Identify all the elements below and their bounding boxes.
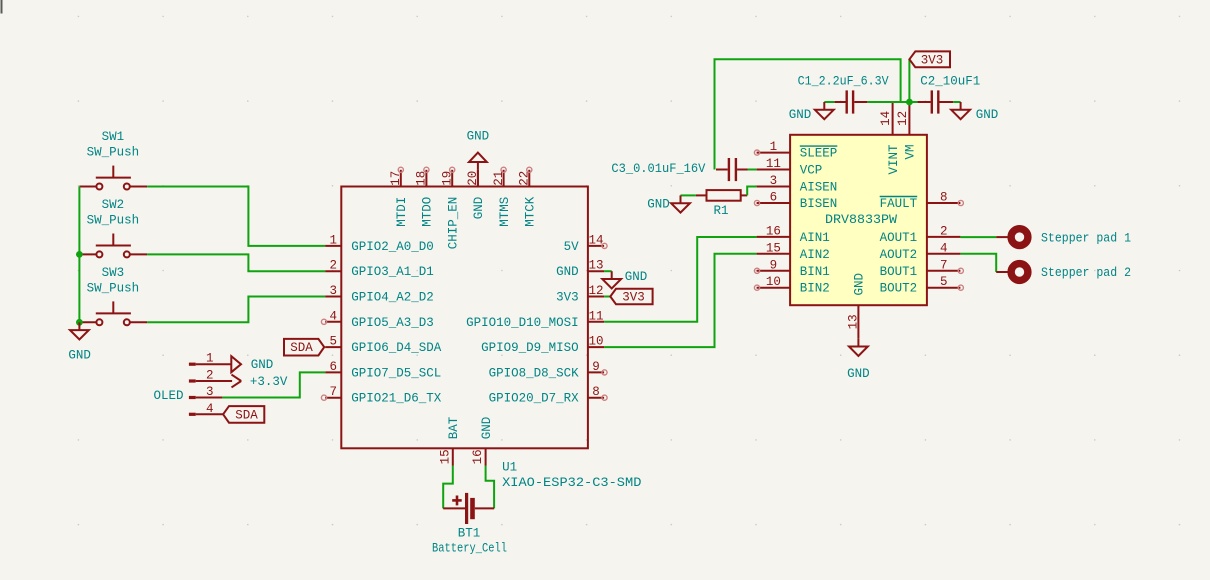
svg-text:7: 7 [940,258,948,272]
wire U1 pin 12 to 3V3 label [604,296,610,298]
U1 pin 5 GPIO6_D4_SDA [325,335,442,356]
DRV pin 12 VM [896,102,918,160]
svg-text:11: 11 [588,309,603,323]
svg-text:3: 3 [206,385,214,399]
U1 pin 2 GPIO3_A1_D1 [325,259,434,280]
DRV pin 8 FAULT [880,191,964,212]
svg-text:GND: GND [480,417,494,440]
DRV pin 5 BOUT2 [880,275,964,296]
DRV pin 3 AISEN [757,174,838,195]
svg-text:Stepper pad 1: Stepper pad 1 [1041,231,1131,245]
U1 pin 3 GPIO4_A2_D2 [325,284,434,305]
capacitor C2 [917,90,953,113]
svg-text:MTMS: MTMS [498,197,512,227]
svg-text:C3_0.01uF_16V: C3_0.01uF_16V [611,162,705,176]
svg-text:SW_Push: SW_Push [87,213,140,227]
svg-text:14: 14 [879,111,893,126]
power label 3V3 at U1 pin 12 [610,289,652,305]
wire 3V3 node [867,101,909,103]
svg-text:DRV8833PW: DRV8833PW [825,213,898,227]
U1 pin 21 MTMS [492,167,512,227]
junction 3V3 node [907,99,913,105]
svg-text:GPIO8_D8_SCK: GPIO8_D8_SCK [489,366,580,380]
svg-text:XIAO-ESP32-C3-SMD: XIAO-ESP32-C3-SMD [502,476,641,490]
capacitor C3 [716,158,748,181]
DRV pin 2 AOUT1 [880,224,961,245]
svg-text:Battery_Cell: Battery_Cell [432,541,507,555]
ground below SW3 [68,322,91,362]
svg-text:MTCK: MTCK [524,196,538,227]
wire 3V3 label stub [908,59,910,102]
svg-text:MTDO: MTDO [421,197,435,227]
wire U1 BAT to battery plus [443,466,453,509]
svg-text:GND: GND [847,367,870,381]
svg-text:12: 12 [588,284,603,298]
svg-text:7: 7 [330,385,338,399]
svg-text:15: 15 [766,241,781,255]
svg-text:12: 12 [896,111,910,126]
ground at U1 pin 13 [602,270,647,288]
svg-text:GPIO9_D9_MISO: GPIO9_D9_MISO [481,341,579,355]
svg-text:AISEN: AISEN [800,181,838,195]
svg-text:SW_Push: SW_Push [87,281,140,295]
svg-text:GND: GND [853,273,867,296]
svg-text:15: 15 [438,449,452,464]
svg-text:3: 3 [770,174,778,188]
svg-text:GPIO21_D6_TX: GPIO21_D6_TX [351,392,442,406]
U1 pin 10 GPIO9_D9_MISO [481,335,604,356]
svg-text:5V: 5V [564,240,580,254]
svg-text:SDA: SDA [235,408,258,422]
IC U1 XIAO-ESP32-C3-SMD body [341,187,588,449]
U1 pin 7 GPIO21_D6_TX [321,385,441,406]
svg-text:BOUT1: BOUT1 [880,265,918,279]
svg-text:GPIO6_D4_SDA: GPIO6_D4_SDA [351,341,442,355]
svg-text:R1: R1 [713,204,728,218]
U1 pin 14 5V [564,233,608,254]
DRV pin 1 SLEEP [754,140,837,161]
svg-text:AIN2: AIN2 [800,248,830,262]
svg-text:13: 13 [588,259,603,273]
svg-text:SW2: SW2 [102,198,125,212]
svg-text:9: 9 [770,258,778,272]
U1 pin 4 GPIO5_A3_D3 [321,309,433,330]
U1 pin 12 3V3 [556,284,604,305]
svg-text:GND: GND [472,197,486,220]
U1 pin 20 GND [466,170,486,219]
svg-text:GPIO7_D5_SCL: GPIO7_D5_SCL [351,366,441,380]
wire SW2 to U1 pin 2 [147,254,325,271]
svg-text:AOUT1: AOUT1 [880,231,918,245]
wire C3 to DRV VCP [748,169,757,171]
svg-text:GPIO3_A1_D1: GPIO3_A1_D1 [351,265,434,279]
IC U2 DRV8833PW body [790,135,927,305]
svg-text:GND: GND [68,349,91,363]
svg-text:BIN1: BIN1 [800,265,830,279]
U1 pin 8 GPIO20_D7_RX [489,385,608,406]
svg-text:GPIO20_D7_RX: GPIO20_D7_RX [489,392,580,406]
svg-text:C1_2.2uF_6.3V: C1_2.2uF_6.3V [798,75,889,89]
svg-text:4: 4 [206,402,214,416]
svg-text:9: 9 [592,360,600,374]
svg-text:10: 10 [766,275,781,289]
DRV pin 14 VINT [879,102,901,175]
svg-text:3: 3 [330,284,338,298]
pad 1 lead [996,236,1008,238]
svg-text:GND: GND [789,108,812,122]
svg-text:BISEN: BISEN [800,197,838,211]
stepper pad 1 [1008,226,1131,249]
DRV pin 10 BIN2 [754,275,829,296]
U1 pin 16 GND [471,417,494,466]
capacitor C1 [834,90,867,113]
svg-text:2: 2 [206,369,214,383]
power label 3V3 top [909,51,950,67]
U1 pin 1 GPIO2_A0_D0 [325,233,434,254]
svg-text:SDA: SDA [290,341,313,355]
svg-text:BOUT2: BOUT2 [880,282,918,296]
wire SW1 to U1 pin 1 [147,187,325,246]
wire DRV AOUT2 to pad 2 [960,254,996,272]
wire U1 pin 10 to DRV AIN2 [604,254,757,347]
DRV pin 7 BOUT1 [880,258,964,279]
U1 pin 19 CHIP_EN [440,167,460,249]
U1 pin 6 GPIO7_D5_SCL [325,360,441,381]
OLED pin 2 [189,369,232,383]
svg-text:C2_10uF1: C2_10uF1 [920,75,980,89]
svg-text:GPIO4_A2_D2: GPIO4_A2_D2 [351,291,434,305]
DRV pin 4 AOUT2 [880,241,961,261]
global label SDA at OLED pin 4 [223,406,264,423]
wire R1 to DRV AISEN [747,187,756,196]
svg-text:SW1: SW1 [102,130,125,144]
svg-text:GPIO5_A3_D3: GPIO5_A3_D3 [351,316,434,330]
svg-text:3V3: 3V3 [556,291,579,305]
svg-text:+3.3V: +3.3V [250,375,288,389]
svg-text:1: 1 [770,140,778,154]
ground at C2 [951,102,998,122]
U1 pin 22 MTCK [518,167,538,227]
svg-text:8: 8 [940,191,948,205]
ground at OLED pin 1 [231,356,273,372]
svg-text:BIN2: BIN2 [800,282,830,296]
wire U1 pin 11 to DRV AIN1 [604,237,757,322]
DRV pin 13 GND [846,273,866,339]
svg-text:MTDI: MTDI [395,197,409,227]
svg-text:6: 6 [330,360,338,374]
wire switch common bus [78,187,80,323]
svg-text:GPIO2_A0_D0: GPIO2_A0_D0 [351,240,434,254]
wire DRV AOUT1 to pad 1 [960,236,996,238]
svg-text:AOUT2: AOUT2 [880,248,918,262]
svg-text:5: 5 [940,275,948,289]
wire C2 to ground [953,101,960,103]
DRV pin 11 VCP [757,157,823,178]
junction SW2 left [77,252,83,258]
svg-text:1: 1 [330,233,338,247]
svg-text:1: 1 [206,352,214,366]
switch SW2 SW_Push [79,198,147,258]
DRV pin 6 BISEN [754,191,837,212]
svg-text:GND: GND [251,358,274,372]
ground below DRV pin 13 [847,339,870,381]
svg-text:4: 4 [330,309,338,323]
svg-text:11: 11 [766,157,781,171]
svg-text:8: 8 [592,385,600,399]
svg-text:6: 6 [770,191,778,205]
svg-text:5: 5 [330,335,338,349]
power +3.3V at OLED pin 2 [232,375,288,389]
ground at R1 [647,195,690,212]
svg-text:2: 2 [330,259,338,273]
ground at C1 [789,102,834,122]
svg-text:SLEEP: SLEEP [800,147,838,161]
OLED pin 4 [189,402,223,416]
DRV pin 16 AIN1 [757,224,830,245]
battery BT1 [432,493,507,555]
svg-text:GND: GND [556,265,579,279]
svg-text:GND: GND [467,130,490,144]
DRV pin 15 AIN2 [757,241,830,261]
svg-text:16: 16 [471,449,485,464]
wire R1 to ground [681,194,696,196]
resistor R1 [696,190,747,218]
ground above U1 pin 20 [467,130,490,187]
svg-text:VM: VM [904,145,918,160]
switch SW1 SW_Push [79,130,147,190]
svg-text:GND: GND [625,270,648,284]
junction SW3 left [77,319,83,325]
stepper pad 2 [1008,260,1131,283]
svg-text:BAT: BAT [447,416,461,439]
U1 pin 9 GPIO8_D8_SCK [489,360,608,381]
svg-text:SW_Push: SW_Push [87,146,140,160]
svg-text:VINT: VINT [887,144,901,175]
svg-text:2: 2 [940,224,948,238]
svg-text:VCP: VCP [800,164,823,178]
U1 pin 13 GND [556,259,604,280]
wire OLED pin 3 to U1 pin 6 [222,372,325,397]
OLED pin 1 [189,352,231,366]
svg-text:CHIP_EN: CHIP_EN [446,197,460,250]
wire 3V3 rail [715,59,901,169]
U1 pin 18 MTDO [415,167,435,227]
wire SW3 to U1 pin 3 [147,297,325,323]
U1 pin 17 MTDI [389,167,409,227]
svg-text:OLED: OLED [153,389,183,403]
svg-text:Stepper pad 2: Stepper pad 2 [1041,266,1131,280]
svg-text:10: 10 [588,335,603,349]
wire C1 to ground [824,101,834,103]
svg-text:GND: GND [647,198,670,212]
svg-text:16: 16 [766,224,781,238]
wire C2 left [909,101,917,103]
OLED pin 3 [189,385,223,399]
svg-text:SW3: SW3 [102,266,125,280]
U1 pin 15 BAT [438,416,461,465]
svg-text:AIN1: AIN1 [800,231,830,245]
wire U1 pin 13 to ground [604,270,612,272]
svg-text:GND: GND [976,108,999,122]
pad 2 lead [996,271,1008,273]
svg-text:U1: U1 [502,461,517,475]
svg-text:13: 13 [846,314,860,329]
global label SDA at U1 pin 5 [284,339,324,356]
svg-text:BT1: BT1 [458,527,481,541]
svg-text:FAULT: FAULT [880,197,918,211]
svg-text:3V3: 3V3 [622,291,645,305]
svg-text:4: 4 [940,241,948,255]
wire U1 GND to battery minus [486,466,495,509]
svg-text:GPIO10_D10_MOSI: GPIO10_D10_MOSI [466,316,579,330]
DRV pin 9 BIN1 [754,258,829,279]
U1 pin 11 GPIO10_D10_MOSI [466,309,604,330]
svg-text:3V3: 3V3 [921,53,944,67]
switch SW3 SW_Push [79,266,147,326]
